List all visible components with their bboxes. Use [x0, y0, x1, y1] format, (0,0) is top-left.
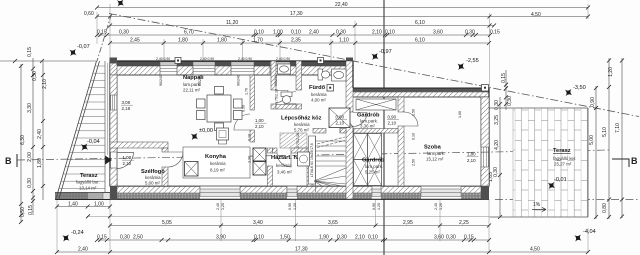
entry door [117, 153, 134, 169]
wc doors [276, 91, 288, 103]
svg-text:5,25 m²: 5,25 m² [365, 170, 380, 175]
svg-text:1,90: 1,90 [319, 235, 329, 241]
top wall tall section: hatched masonry band with window gaps [110, 66, 352, 75]
svg-text:0,10: 0,10 [248, 134, 252, 141]
svg-text:Gardrób: Gardrób [362, 158, 385, 164]
nappali to stairhall [234, 114, 250, 130]
svg-text:2,10: 2,10 [336, 121, 345, 126]
svg-text:0,10: 0,10 [254, 30, 264, 36]
svg-text:1,20: 1,20 [377, 203, 381, 210]
svg-text:lam.park.: lam.park. [427, 151, 445, 156]
svg-text:1,60: 1,60 [458, 111, 462, 118]
svg-text:2,40: 2,40 [434, 203, 438, 210]
svg-text:11,20: 11,20 [226, 20, 238, 26]
row2 details [97, 239, 489, 241]
svg-text:1,00: 1,00 [94, 202, 104, 208]
right exterior wall [481, 88, 489, 187]
svg-text:-0,07: -0,07 [77, 44, 90, 50]
svg-text:Terasz: Terasz [553, 148, 571, 154]
kitchen sink unit [185, 162, 199, 177]
facade extension dash right [495, 199, 640, 201]
svg-text:0,30: 0,30 [336, 30, 346, 36]
bottom wall [110, 186, 489, 199]
svg-text:fagyálló ker.: fagyálló ker. [553, 156, 576, 161]
svg-text:0,10: 0,10 [291, 30, 301, 36]
svg-text:-0,04: -0,04 [87, 139, 100, 145]
svg-text:0,15: 0,15 [501, 73, 507, 83]
extension lines top [96, 12, 98, 44]
svg-text:2,30: 2,30 [248, 156, 252, 163]
wall nappali/stairhall [250, 75, 255, 142]
svg-text:1,50: 1,50 [412, 109, 416, 116]
extension lines bottom [56, 200, 58, 253]
corner marker boxes [175, 58, 489, 92]
svg-text:8,19 m²: 8,19 m² [210, 168, 225, 173]
dining table and chairs [197, 87, 243, 131]
svg-text:2,35: 2,35 [291, 38, 301, 44]
svg-text:2,25: 2,25 [459, 220, 469, 226]
furdo bottom wall [313, 129, 346, 134]
svg-text:7,10: 7,10 [615, 123, 621, 133]
svg-text:22,40: 22,40 [335, 2, 348, 8]
haztartasi top wall [273, 148, 313, 153]
svg-text:0,15: 0,15 [27, 47, 33, 57]
gardrob upper cabinet [356, 99, 396, 110]
svg-text:6,10: 6,10 [415, 38, 425, 44]
wall between gardrob and szoba [398, 97, 404, 186]
svg-text:Szoba: Szoba [424, 145, 442, 151]
roof outline dash-dot diagonal [109, 14, 639, 117]
svg-text:0,10: 0,10 [368, 235, 378, 241]
exterior stair treads [59, 66, 105, 188]
svg-text:0,15: 0,15 [28, 205, 34, 215]
room labels [76, 75, 576, 191]
svg-text:Fürdő: Fürdő [309, 85, 326, 91]
svg-text:0,90: 0,90 [336, 115, 345, 120]
svg-text:2,10: 2,10 [255, 124, 264, 129]
svg-text:0,30: 0,30 [507, 96, 513, 106]
dim row E 2.45 1.80 1.80 1.70 2.35 1.10 6.10 [110, 42, 489, 44]
bottom dimension chains [55, 199, 590, 254]
row1 5.05 3.40 3.65 2.95 2.25 [110, 225, 489, 227]
svg-text:0,75/2,10: 0,75/2,10 [275, 89, 279, 104]
svg-text:3,36 m²: 3,36 m² [360, 124, 375, 129]
svg-text:0,30: 0,30 [120, 235, 130, 241]
top wall tall section: dark insulation band [110, 62, 352, 67]
svg-text:1,70: 1,70 [245, 88, 249, 95]
svg-text:0,90: 0,90 [288, 203, 292, 210]
svg-text:3,65: 3,65 [328, 220, 338, 226]
svg-text:Lépcsőház köz: Lépcsőház köz [281, 116, 322, 122]
furdo shower [329, 108, 350, 128]
haztartasi left wall [268, 148, 273, 186]
svg-text:25,27 m²: 25,27 m² [554, 162, 572, 167]
svg-text:3,08: 3,08 [122, 100, 131, 105]
svg-text:3,90: 3,90 [216, 235, 226, 241]
svg-text:22,11 m²: 22,11 m² [183, 88, 201, 93]
svg-text:6,10: 6,10 [415, 20, 425, 26]
tiny labels above top wall [156, 57, 290, 61]
svg-text:fagyálló bur.: fagyálló bur. [76, 180, 100, 185]
svg-text:Háztart. h.: Háztart. h. [271, 155, 299, 161]
svg-text:2,95: 2,95 [403, 220, 413, 226]
interior load wall between tall and low sections [346, 61, 353, 199]
svg-text:3,25: 3,25 [494, 115, 500, 125]
svg-text:2,50: 2,50 [133, 235, 143, 241]
svg-text:5,00: 5,00 [589, 135, 595, 145]
svg-text:3,60: 3,60 [434, 235, 444, 241]
svg-text:2,10: 2,10 [467, 158, 476, 163]
furdo toilet [318, 69, 330, 80]
svg-text:kerámia: kerámia [145, 175, 161, 180]
dim row D detail [97, 34, 490, 36]
svg-text:0,30: 0,30 [32, 71, 38, 81]
svg-text:6,70: 6,70 [184, 30, 194, 36]
svg-text:17,30: 17,30 [295, 247, 308, 253]
dim row A 22.40 [97, 7, 588, 9]
svg-text:0,15: 0,15 [490, 30, 500, 36]
svg-text:3,60: 3,60 [433, 30, 443, 36]
svg-text:0,90: 0,90 [590, 97, 596, 107]
svg-text:2,18: 2,18 [122, 106, 131, 111]
svg-text:1%: 1% [533, 202, 541, 208]
gardrob divider wall [353, 129, 398, 134]
bottom wall window sills [200, 189, 461, 197]
svg-text:1,20: 1,20 [293, 203, 297, 210]
svg-text:2,40 0,90: 2,40 0,90 [238, 57, 252, 61]
washing machine [298, 152, 310, 166]
svg-text:17,30: 17,30 [290, 11, 303, 17]
svg-text:lam.park.: lam.park. [365, 164, 383, 169]
svg-text:5,76 m²: 5,76 m² [294, 128, 309, 133]
svg-text:0,30: 0,30 [446, 235, 456, 241]
top dimension chains [95, 4, 590, 88]
gardrob door west [353, 113, 367, 127]
haztartasi right / stair wall [307, 148, 313, 186]
wc toilet [281, 92, 292, 103]
svg-text:0,50: 0,50 [242, 105, 246, 112]
svg-text:LTVA-K 60 19x25/17,6: LTVA-K 60 19x25/17,6 [310, 143, 314, 177]
svg-text:2,45: 2,45 [130, 38, 140, 44]
svg-text:0,30: 0,30 [337, 235, 347, 241]
svg-text:4,50: 4,50 [530, 247, 540, 253]
svg-text:-2,55: -2,55 [466, 58, 479, 64]
opening size labels [121, 100, 479, 166]
right vertical dimension chains [504, 58, 624, 219]
svg-text:1,00: 1,00 [255, 118, 264, 123]
svg-text:2,10: 2,10 [123, 161, 132, 166]
svg-text:0,90: 0,90 [372, 203, 376, 210]
svg-text:kerámia: kerámia [210, 161, 226, 166]
svg-text:±0,00: ±0,00 [199, 128, 213, 134]
svg-text:2,40: 2,40 [37, 129, 43, 139]
szelfogo to konyha [168, 152, 183, 167]
auxiliary line above bottom dims [87, 215, 489, 217]
svg-text:5,05: 5,05 [162, 220, 172, 226]
dim row C 11.20 6.10 0.15 [110, 25, 494, 27]
svg-text:0,60: 0,60 [84, 11, 94, 17]
svg-text:2,40 0,90: 2,40 0,90 [156, 57, 170, 61]
svg-text:90/240: 90/240 [237, 75, 241, 86]
svg-text:2,10: 2,10 [388, 121, 397, 126]
small terrace dim row [57, 206, 110, 208]
szelfogo top wall [110, 142, 168, 148]
svg-text:3,46 m²: 3,46 m² [277, 170, 292, 175]
svg-text:1,00: 1,00 [123, 155, 132, 160]
svg-text:2,10: 2,10 [372, 30, 382, 36]
svg-text:0,15: 0,15 [464, 235, 474, 241]
svg-text:-0,01: -0,01 [554, 177, 567, 183]
left exterior wall [110, 58, 354, 187]
svg-text:Terasz: Terasz [80, 173, 98, 179]
svg-text:1,80: 1,80 [467, 152, 476, 157]
svg-text:1,20: 1,20 [439, 203, 443, 210]
svg-text:90/240: 90/240 [274, 75, 278, 86]
svg-text:2,10: 2,10 [355, 235, 365, 241]
kitchen counter [183, 128, 250, 178]
dim row B 0.60 17.30 4.50 [97, 16, 588, 18]
svg-text:kerámia: kerámia [276, 163, 292, 168]
slope arrow 1% [532, 202, 546, 212]
szelfogo right wall [162, 148, 168, 186]
top wall window glazing lines [160, 69, 290, 72]
svg-text:0,50: 0,50 [20, 207, 26, 217]
corner pantry shelving [280, 133, 307, 148]
furdo washbasin [332, 69, 347, 81]
svg-text:-0,97: -0,97 [379, 49, 392, 55]
svg-text:2,50: 2,50 [412, 159, 416, 166]
rotated labels below bottom wall windows [216, 203, 443, 210]
svg-text:2,00: 2,00 [27, 152, 33, 162]
svg-text:0,90: 0,90 [388, 115, 397, 120]
svg-text:4,00 m²: 4,00 m² [311, 98, 326, 103]
svg-text:1,00: 1,00 [273, 30, 283, 36]
B marker left [5, 154, 112, 167]
svg-text:90/240: 90/240 [198, 75, 202, 86]
svg-text:0,15: 0,15 [97, 30, 107, 36]
svg-text:6,30: 6,30 [20, 135, 26, 145]
svg-text:2,40: 2,40 [309, 30, 319, 36]
left vertical dimension chains [0, 58, 97, 224]
furdo door [340, 119, 354, 133]
svg-text:90/240: 90/240 [159, 75, 163, 86]
svg-text:5,10: 5,10 [602, 127, 608, 137]
left terrace bottom wall [55, 193, 110, 200]
door arcs [117, 91, 418, 169]
svg-text:kerámia: kerámia [311, 92, 327, 97]
terrace right with brick paving [490, 108, 589, 217]
svg-text:1,40: 1,40 [68, 202, 78, 208]
wc partition walls [271, 61, 302, 109]
svg-text:1,50: 1,50 [280, 235, 290, 241]
gardrob door east / szoba [404, 112, 418, 126]
svg-text:0,10: 0,10 [412, 133, 416, 140]
svg-text:13,14 m²: 13,14 m² [79, 186, 97, 191]
svg-text:5,00 m²: 5,00 m² [145, 181, 160, 186]
svg-text:4,50: 4,50 [531, 12, 541, 18]
svg-text:2,40: 2,40 [78, 247, 88, 253]
svg-text:3,30: 3,30 [27, 103, 33, 113]
svg-text:0,80: 0,80 [602, 203, 608, 213]
svg-text:Konyha: Konyha [205, 154, 227, 160]
exterior stair left, diagonal edges [56, 61, 108, 200]
svg-text:1,80: 1,80 [178, 38, 188, 44]
svg-text:0,30: 0,30 [493, 167, 499, 177]
svg-text:15,12 m²: 15,12 m² [426, 157, 444, 162]
row3 2.40 17.30 4.50 [57, 251, 588, 253]
B marker right [612, 156, 638, 167]
section line B-B horizontal [17, 150, 610, 160]
svg-text:-0,24: -0,24 [71, 230, 84, 236]
svg-text:1,80: 1,80 [37, 158, 43, 168]
svg-text:0,15: 0,15 [97, 235, 107, 241]
svg-text:3,40: 3,40 [253, 220, 263, 226]
svg-text:2,40 0,90: 2,40 0,90 [200, 57, 214, 61]
svg-text:1,20: 1,20 [221, 203, 225, 210]
svg-text:0,30: 0,30 [465, 30, 475, 36]
svg-text:0,30: 0,30 [27, 178, 33, 188]
svg-text:B: B [631, 156, 638, 166]
gardrob wardrobes [354, 134, 382, 186]
svg-text:1,20: 1,20 [608, 67, 614, 77]
svg-text:2,40: 2,40 [216, 203, 220, 210]
svg-text:2,40 0,90: 2,40 0,90 [276, 57, 290, 61]
svg-text:B: B [5, 156, 12, 166]
svg-text:0,30: 0,30 [119, 30, 129, 36]
svg-text:0,75/2,10: 0,75/2,10 [296, 133, 300, 148]
wc washbasin [278, 64, 291, 74]
svg-text:0,10: 0,10 [385, 30, 395, 36]
svg-text:kerámia: kerámia [294, 122, 310, 127]
svg-text:1,10: 1,10 [339, 38, 349, 44]
svg-text:4,20: 4,20 [494, 140, 500, 150]
svg-text:-3,50: -3,50 [573, 85, 586, 91]
svg-text:0,10: 0,10 [254, 235, 264, 241]
rotated window labels below top wall [159, 75, 462, 166]
section line A-A vertical [383, 0, 385, 255]
fridge tall cabinets [253, 148, 266, 175]
haztartasi door [277, 153, 291, 167]
top wall right lower section [352, 88, 489, 97]
svg-text:-4,04: -4,04 [583, 229, 596, 235]
svg-text:1,80: 1,80 [217, 38, 227, 44]
interior stair [309, 136, 347, 192]
inner terrace dim line [498, 97, 502, 219]
svg-text:2,10: 2,10 [42, 79, 48, 89]
property line top-left slant [97, 14, 112, 61]
